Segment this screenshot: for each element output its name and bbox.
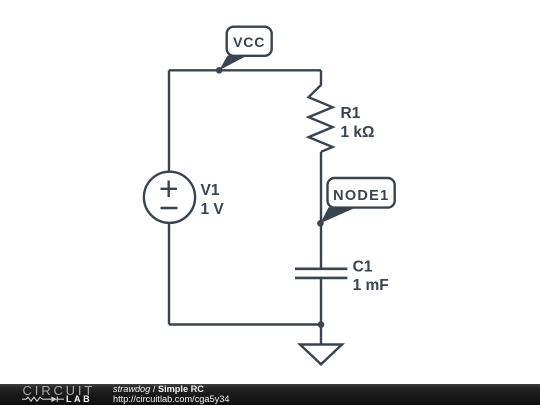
capacitor C1 — [295, 269, 347, 278]
svg-text:1 mF: 1 mF — [353, 277, 389, 294]
junction dot — [318, 321, 325, 328]
CircuitLab logo — [0, 384, 100, 405]
wire — [320, 70, 322, 85]
wire — [168, 70, 170, 172]
svg-text:NODE1: NODE1 — [333, 188, 389, 204]
junction dot — [216, 67, 223, 74]
wire — [320, 325, 322, 345]
svg-text:C1: C1 — [353, 259, 373, 276]
credit text — [112, 383, 114, 385]
svg-text:1 kΩ: 1 kΩ — [341, 124, 375, 141]
svg-text:VCC: VCC — [233, 34, 265, 50]
wire — [320, 278, 322, 325]
svg-text:1 V: 1 V — [201, 201, 225, 218]
voltage source V1 — [144, 172, 195, 223]
wire — [320, 152, 322, 269]
ground — [300, 345, 342, 365]
wire — [168, 223, 170, 325]
resistor R1 — [309, 85, 333, 152]
junction dot — [317, 220, 324, 227]
footer bar — [0, 384, 540, 405]
svg-text:V1: V1 — [201, 182, 220, 199]
node label NODE1 — [320, 178, 394, 223]
svg-text:R1: R1 — [341, 105, 361, 122]
svg-text:LAB: LAB — [66, 394, 92, 404]
node label VCC — [219, 27, 272, 71]
wire — [169, 323, 321, 325]
wire — [169, 69, 321, 71]
